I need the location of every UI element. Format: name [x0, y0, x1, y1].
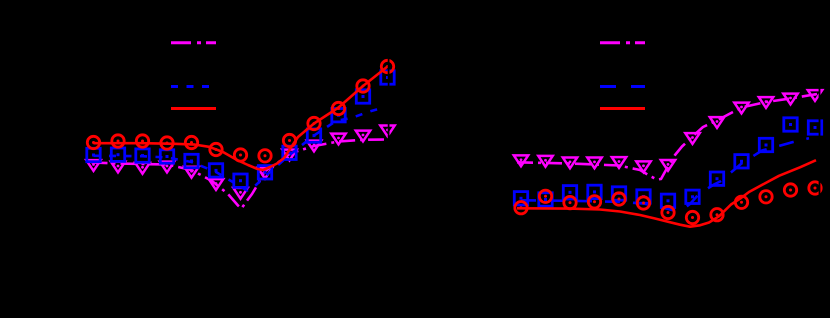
right chart right axis spine (black, overlaps markers) [819, 30, 821, 260]
right chart legend blue dashed line sample [600, 85, 645, 88]
right chart blue dashed curve [521, 138, 809, 210]
left chart magenta dash-dot curve [92, 140, 385, 209]
right chart legend magenta dash-dot line sample [600, 41, 645, 44]
left chart legend blue dashed line sample [171, 85, 216, 88]
right chart legend red solid line sample [600, 107, 645, 110]
left chart legend magenta dash-dot line sample [171, 41, 216, 44]
right chart red solid curve [517, 160, 816, 227]
right chart magenta dash-dot curve [517, 94, 817, 180]
left chart right axis spine (black, overlaps markers) [388, 30, 390, 260]
left chart blue dashed curve [94, 107, 386, 191]
left chart red solid curve [94, 67, 388, 171]
right chart magenta triangle markers [514, 90, 822, 172]
right chart blue square markers [514, 118, 821, 208]
left chart red circle markers [87, 60, 393, 162]
left chart legend red solid line sample [171, 107, 216, 110]
right chart red circle markers [515, 182, 821, 224]
left chart blue square markers [87, 71, 394, 188]
left chart magenta triangle markers [86, 125, 394, 198]
